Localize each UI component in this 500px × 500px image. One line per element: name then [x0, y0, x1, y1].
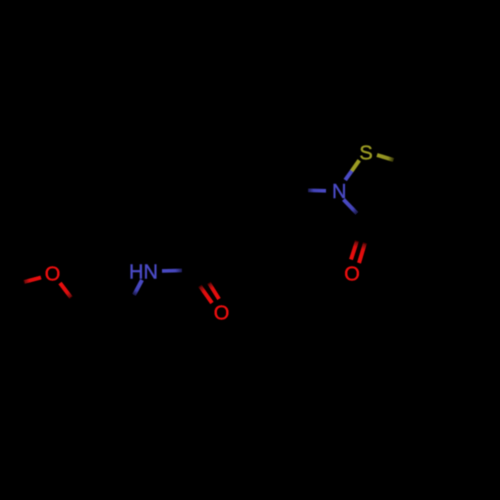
svg-text:O: O [214, 302, 230, 324]
svg-text:O: O [45, 264, 61, 286]
double bond C3=O ring line 2 [359, 243, 365, 263]
wire: ring N to C3 (blue fading) [344, 200, 358, 214]
wire: N to carbonyl C (blue fading) [162, 269, 182, 273]
wire: O1 to CH2 (red fading) [60, 283, 71, 298]
svg-text:O: O [344, 264, 360, 286]
double bond C=O amide line 1 [200, 286, 212, 303]
wire: methyl to O1 (red fading) [24, 278, 41, 283]
wire: S-N bond lower half (blue) [345, 171, 352, 180]
svg-text:HN: HN [129, 261, 158, 283]
wire: chain C to ring N (blue fading left) [308, 189, 326, 193]
double bond C=O amide line 2 [209, 283, 219, 299]
wire: N to chain CH2 down-left (blue fading) [134, 280, 142, 295]
wire: S to ring C (olive fading) [377, 155, 394, 160]
svg-text:S: S [359, 143, 372, 165]
wire: S-N bond upper half (olive) [352, 160, 360, 171]
double bond C3=O ring line 1 [351, 241, 357, 260]
